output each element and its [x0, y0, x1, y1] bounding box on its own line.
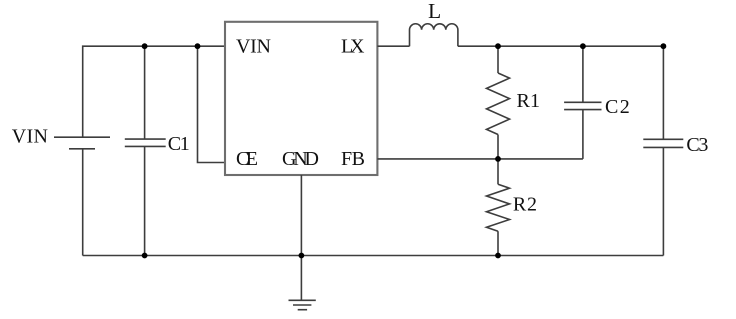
- svg-text:VIN: VIN: [236, 36, 271, 58]
- svg-text:R2: R2: [513, 193, 537, 215]
- svg-text:CE: CE: [236, 148, 258, 170]
- svg-text:C2: C2: [605, 96, 630, 118]
- svg-text:FB: FB: [341, 148, 365, 170]
- svg-text:GND: GND: [282, 148, 319, 170]
- svg-text:VIN: VIN: [12, 125, 48, 147]
- svg-text:L: L: [428, 0, 441, 23]
- svg-text:R1: R1: [517, 90, 541, 112]
- svg-text:C1: C1: [168, 133, 190, 155]
- svg-text:LX: LX: [341, 36, 365, 58]
- svg-text:C3: C3: [686, 134, 708, 156]
